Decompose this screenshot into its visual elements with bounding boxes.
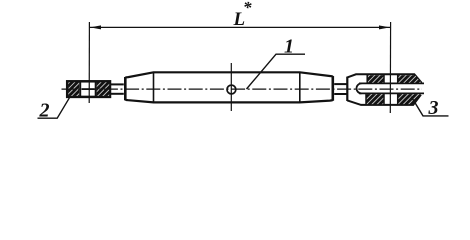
barrel inspection-hole vertical centerline bbox=[230, 63, 232, 111]
fork upper jaw hatch cell 2 bbox=[398, 75, 422, 82]
left neck top line bbox=[111, 83, 124, 85]
svg-text:3: 3 bbox=[428, 97, 439, 119]
barrel outline (item 1 body) bbox=[125, 72, 333, 102]
svg-text:*: * bbox=[243, 0, 252, 17]
fork pin-hole axis / extension line bbox=[389, 22, 391, 113]
barrel left cone junction line bbox=[153, 72, 155, 102]
fork lower jaw cell boundary left bbox=[365, 94, 367, 105]
leader line of label 1 bbox=[247, 54, 306, 89]
fork upper jaw hole wall line right bbox=[397, 75, 399, 83]
fork slot top line bbox=[359, 82, 424, 84]
fork cap left edge (item 3) bbox=[346, 77, 348, 101]
fork upper jaw hole wall line left bbox=[383, 75, 385, 83]
left block divider line 1 bbox=[79, 81, 81, 98]
fork slot rounded end arc bbox=[357, 83, 362, 93]
svg-text:1: 1 bbox=[284, 35, 294, 57]
left block white-cell centerline emphasis bbox=[82, 88, 95, 90]
svg-text:2: 2 bbox=[39, 99, 50, 121]
barrel right end edge bbox=[331, 76, 334, 101]
left block divider line 2 bbox=[95, 81, 97, 98]
fork lower jaw hatch cell 1 bbox=[366, 94, 384, 104]
left eye block outline (item 2 body) bbox=[67, 81, 110, 97]
left block hatch cell A bbox=[68, 82, 79, 96]
left block hatch cell B bbox=[97, 82, 110, 96]
barrel right cone junction line bbox=[299, 72, 301, 102]
left eye hole axis / extension line bbox=[88, 22, 90, 103]
fork lower jaw hatch cell 2 bbox=[398, 94, 421, 104]
dimension arrowhead left bbox=[90, 25, 101, 29]
barrel left end edge bbox=[124, 77, 127, 100]
leader line of label 2 bbox=[38, 97, 71, 118]
fork upper jaw cell boundary left bbox=[366, 75, 368, 83]
fork lower jaw hole wall line right bbox=[397, 94, 399, 105]
fork lower jaw hole wall line left bbox=[383, 94, 385, 105]
right neck bottom line bbox=[334, 93, 347, 95]
fork upper jaw hatch cell 1 bbox=[367, 75, 384, 82]
right neck top line bbox=[334, 83, 347, 85]
barrel inspection hole circle bbox=[227, 85, 236, 94]
horizontal centerline (main axis, dash-dot) bbox=[62, 88, 423, 90]
fork outer top edge with chamfers bbox=[347, 74, 421, 83]
leader line of label 3 bbox=[411, 97, 448, 116]
fork outer bottom edge with chamfers bbox=[347, 95, 421, 105]
left neck bottom line bbox=[111, 93, 124, 95]
dimension line L* bbox=[90, 26, 390, 28]
dimension arrowhead right bbox=[379, 25, 390, 29]
fork slot bottom line bbox=[359, 92, 424, 94]
